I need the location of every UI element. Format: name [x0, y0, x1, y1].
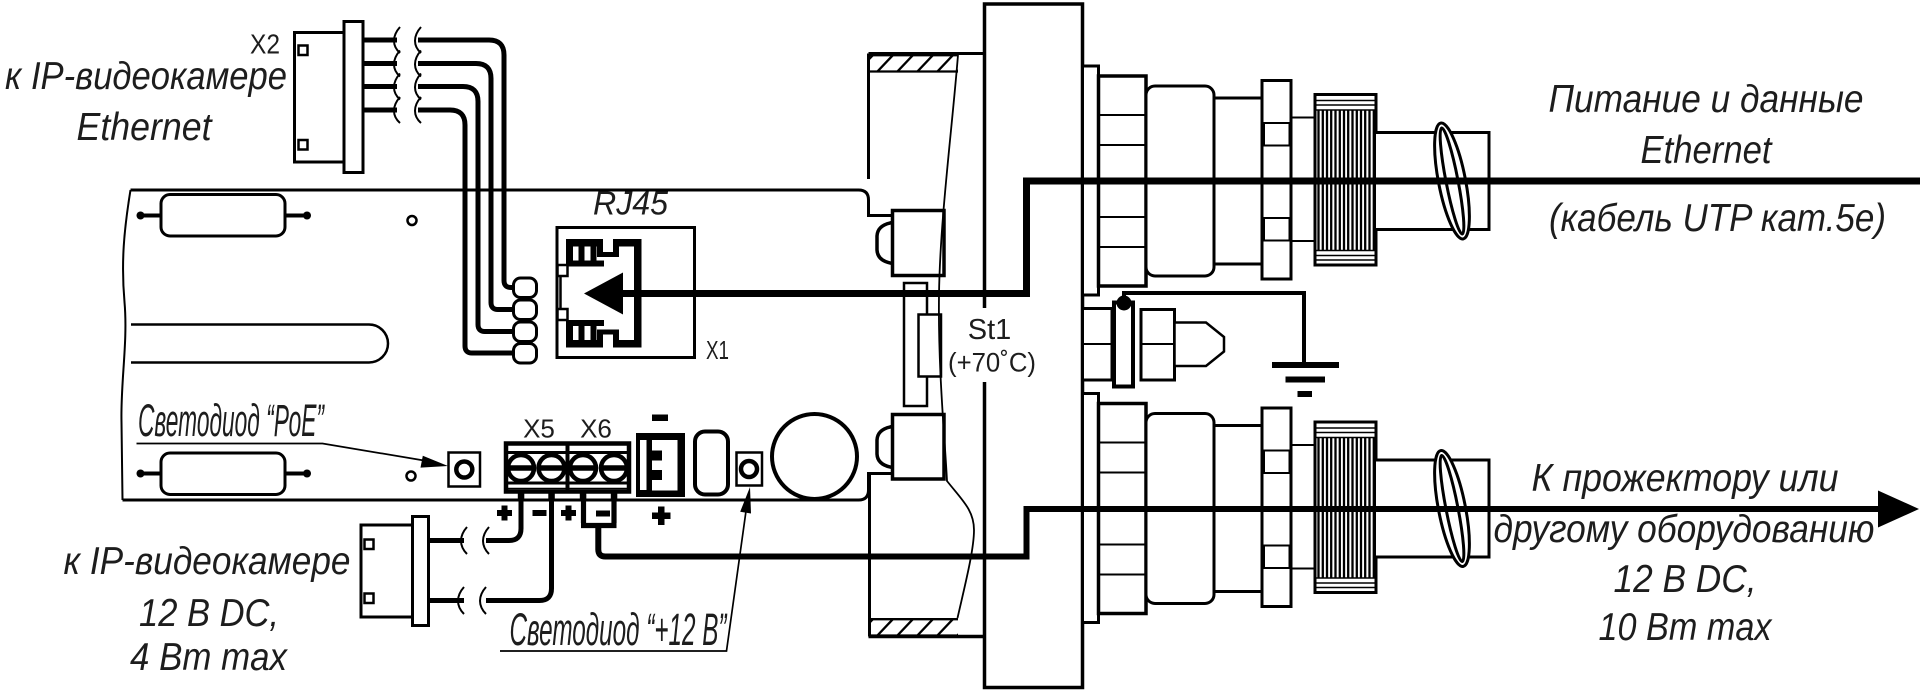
svg-text:X5: X5	[523, 414, 555, 444]
camera housing hatched band top	[856, 54, 974, 73]
label pointer: LED +12V underline and arrow	[500, 513, 746, 652]
terminal screw X6-2	[601, 455, 627, 481]
svg-text:Ethernet: Ethernet	[1641, 129, 1774, 172]
connector CN2 (bottom-left, 12V) body	[361, 525, 413, 617]
X2 wire 4	[363, 108, 397, 113]
gland small cylinder	[1210, 98, 1262, 264]
PCB board outline (top edge with right corner step)	[131, 190, 893, 216]
via hole bottom	[407, 472, 416, 481]
wire crimp sockets at RJ45	[514, 278, 537, 298]
terminal screw X6-1	[570, 455, 596, 481]
CN2 cable break marks	[461, 527, 467, 554]
fuse component bottom (body)	[161, 453, 285, 495]
PCB slot (stadium cutout)	[131, 325, 388, 363]
polarity sign - (X5)	[533, 510, 547, 516]
connector X2 body	[295, 33, 345, 163]
thermostat St1 strut	[904, 283, 927, 406]
terminal pins at PCB edge	[518, 494, 525, 501]
svg-text:Светодиод “+12 В”: Светодиод “+12 В”	[510, 604, 728, 655]
gland body	[1146, 86, 1214, 276]
camera housing top edge	[869, 52, 985, 55]
camera housing bottom edge	[869, 635, 985, 639]
svg-text:RJ45: RJ45	[593, 186, 668, 223]
ground wire junction dot	[1117, 296, 1132, 311]
svg-text:X1: X1	[706, 335, 729, 365]
cable gland (bottom)	[1083, 394, 1490, 623]
svg-text:12 В DC,: 12 В DC,	[1614, 558, 1757, 601]
fuse top left lead	[138, 214, 162, 218]
fuse bottom left lead	[138, 472, 162, 476]
X2 wire 1	[363, 38, 397, 43]
svg-text:(+70˚C): (+70˚C)	[948, 348, 1036, 378]
cable gland (top)	[1083, 66, 1490, 295]
grounding screw stem	[1114, 303, 1133, 387]
RJ45 socket outer box X1	[557, 228, 695, 358]
cable jacket	[1376, 133, 1489, 230]
terminal screw X5-2	[539, 455, 565, 481]
thick wire: X6 12V out	[584, 495, 615, 523]
polarity sign + (X5)	[497, 510, 512, 516]
camera housing hatched band bottom	[856, 618, 974, 637]
X2 wire 3	[363, 84, 397, 89]
svg-text:X2: X2	[250, 29, 280, 60]
svg-text:4 Вт max: 4 Вт max	[130, 636, 289, 679]
CN2 wire - (to X5)	[429, 598, 465, 603]
arrowhead 12V out	[1878, 491, 1919, 528]
svg-text:Светодиод “РоЕ”: Светодиод “РоЕ”	[138, 395, 325, 446]
X2 wire 2	[363, 61, 397, 66]
camera housing left edge (top part)	[867, 54, 870, 180]
svg-text:Питание и данные: Питание и данные	[1549, 78, 1864, 121]
rounded component right of J1	[695, 432, 728, 495]
svg-text:(кабель UTP кат.5е): (кабель UTP кат.5е)	[1549, 197, 1886, 240]
CN2 wire + (to X5)	[429, 538, 465, 543]
white mask behind St1 label	[950, 308, 1038, 382]
terminal screw X5-1	[508, 455, 534, 481]
X2 cable break marks	[394, 27, 400, 123]
fuse bottom right lead	[285, 472, 309, 476]
bulkhead mounting plate	[985, 4, 1083, 688]
polarity sign + (X6)	[561, 510, 576, 516]
ground wire	[1124, 293, 1304, 362]
housing break line (wavy)	[939, 55, 974, 618]
camera housing left edge (bottom part)	[868, 474, 871, 637]
fuse component top (body)	[161, 195, 285, 237]
grounding screw left nut	[1083, 309, 1113, 381]
svg-text:St1: St1	[968, 314, 1012, 346]
cable clamp lower	[893, 415, 945, 480]
minus sign above J1	[652, 415, 668, 422]
power connector J1 (black body)	[636, 433, 685, 497]
gland knurled nut	[1315, 95, 1376, 266]
svg-text:X6: X6	[580, 414, 612, 444]
cable clamp upper	[893, 211, 945, 276]
grounding screw right nut	[1141, 310, 1175, 381]
svg-text:к IP-видеокамере: к IP-видеокамере	[64, 540, 351, 583]
svg-text:другому оборудованию: другому оборудованию	[1494, 508, 1875, 551]
gland flange strip	[1083, 66, 1099, 295]
grounding screw tip	[1175, 323, 1225, 367]
gland hex nut	[1099, 76, 1147, 286]
LED "PoE" (square with round lens)	[449, 453, 481, 487]
via hole top	[408, 216, 417, 225]
PCB left break edge (wavy)	[121, 190, 130, 500]
big round capacitor C1	[772, 414, 857, 499]
svg-text:10 Вт max: 10 Вт max	[1599, 606, 1774, 649]
RJ45 jack symbol	[566, 239, 642, 348]
label pointer: LED PoE underline and arrow	[137, 444, 425, 461]
RJ45 arrow (signal direction)	[584, 273, 623, 315]
svg-text:12 В DC,: 12 В DC,	[139, 592, 279, 635]
fuse top right lead	[285, 214, 309, 218]
svg-text:Ethernet: Ethernet	[77, 106, 214, 149]
gland link lines	[1291, 118, 1315, 242]
svg-text:К прожектору или: К прожектору или	[1532, 457, 1839, 500]
plus sign below J1	[652, 513, 671, 520]
terminal block X5/X6 outer body	[506, 444, 629, 492]
cable tie loop	[1427, 121, 1476, 242]
thick wire: RJ45 to Ethernet cable	[620, 181, 1920, 294]
LED "+12V" (square with round lens)	[737, 453, 763, 486]
polarity sign - (X6)	[596, 511, 610, 517]
ground symbol	[1272, 365, 1339, 394]
PCB board outline (bottom edge with right corner step)	[123, 474, 893, 501]
svg-text:к IP-видеокамере: к IP-видеокамере	[5, 55, 287, 98]
gland flange ring	[1262, 81, 1291, 280]
